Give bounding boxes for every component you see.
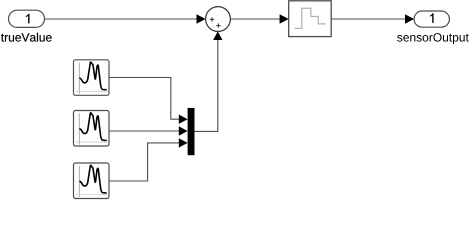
sum block [206,7,231,32]
noise block N1 [74,60,110,96]
noise block N2 [74,111,110,147]
label trueValue [1,33,52,42]
wire Mux to Sum [195,31,223,131]
noise block N3 [74,163,110,199]
wire trueValue to Sum [45,14,206,24]
wire Sum to Quantizer [230,14,288,24]
wire Quantizer to Outport [331,14,414,24]
label sensorOutput [397,33,469,44]
inport In1 [9,10,45,27]
quantizer block [289,1,332,37]
outport Out1 [414,11,449,27]
wire N1 to Mux [109,78,188,124]
wire N3 to Mux [109,138,188,181]
mux block [188,108,195,155]
wire N2 to Mux [109,126,188,135]
